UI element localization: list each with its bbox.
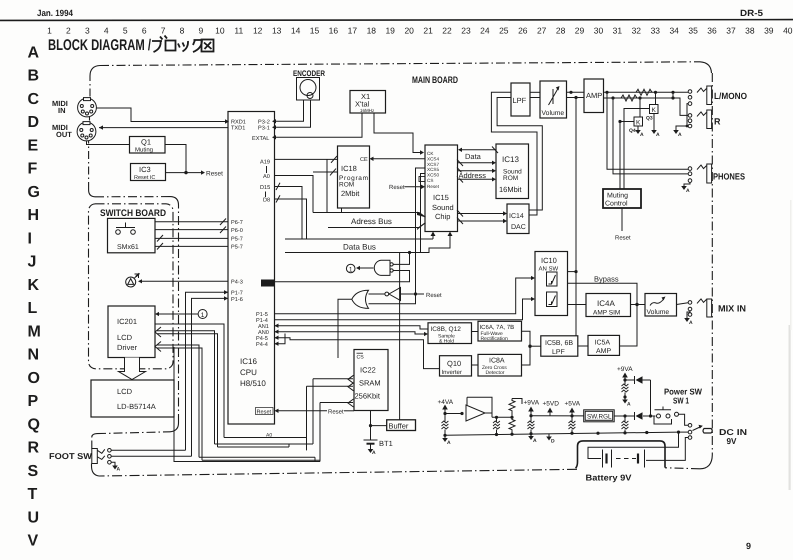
svg-text:G: G xyxy=(28,184,40,201)
svg-text:DAC: DAC xyxy=(511,224,526,231)
wire reset branch riser xyxy=(369,294,416,304)
ground A under +9VA upper xyxy=(624,397,626,400)
wire muting control reset xyxy=(621,208,623,231)
wire IC15 XCS5 riser (reset net) xyxy=(416,168,426,294)
svg-text:21: 21 xyxy=(423,26,433,36)
svg-text:16MHz: 16MHz xyxy=(360,108,375,113)
data bus channel xyxy=(285,238,433,240)
diode D? lower xyxy=(636,412,643,419)
pin bar D15-D8 xyxy=(265,192,267,198)
svg-text:Detector: Detector xyxy=(486,370,505,376)
wire CPU AN1 to IC8B xyxy=(275,326,429,329)
wire A-branch into IC18 xyxy=(313,171,338,173)
transistor Q4 xyxy=(639,98,641,117)
wire channel horizontal 5 xyxy=(202,459,320,461)
IC201 LCD driver box xyxy=(108,306,155,358)
svg-text:256Kbit: 256Kbit xyxy=(355,392,381,401)
wire IC15 to IC14 lower xyxy=(458,220,504,222)
capacitor at op-amp output xyxy=(496,417,498,434)
wire nand output to node1 xyxy=(360,267,374,269)
switch symbol inside SMx61 xyxy=(116,230,121,235)
svg-text:CS: CS xyxy=(427,178,433,183)
lpf IC5B box xyxy=(541,336,578,356)
reset IC3 box xyxy=(131,164,166,181)
svg-text:R: R xyxy=(28,440,40,457)
svg-text:A: A xyxy=(117,467,121,473)
wire dc jack lower to battery plus xyxy=(646,438,688,461)
wire P1-6 riser xyxy=(192,298,229,456)
svg-text:P3-2: P3-2 xyxy=(258,120,270,126)
main board boundary left edge midi section xyxy=(88,141,90,190)
wire nand input upper from data bus xyxy=(393,253,409,265)
svg-text:Adress Bus: Adress Bus xyxy=(351,217,392,226)
capacitor under +9VA xyxy=(530,416,532,434)
amp IC5A box xyxy=(588,335,620,355)
wire lpf to volume R xyxy=(530,97,540,99)
title katakana burokku-zu (drawn strokes) xyxy=(152,36,214,53)
svg-text:4: 4 xyxy=(104,26,109,36)
node 1 circle near IC201 xyxy=(198,310,207,319)
sram IC22 box xyxy=(354,350,388,411)
svg-text:24: 24 xyxy=(480,26,490,36)
main board boundary top-right corner xyxy=(700,62,712,73)
svg-text:IC8A: IC8A xyxy=(489,358,505,365)
svg-text:H: H xyxy=(28,207,40,224)
svg-text:1: 1 xyxy=(201,312,205,319)
wire CPU D8 to data bus xyxy=(275,199,307,239)
wire buffer drop xyxy=(399,253,401,420)
svg-text:SW 1: SW 1 xyxy=(673,396,689,406)
wire power switch to DC jack xyxy=(679,414,689,425)
IC10 switch element upper xyxy=(547,272,558,286)
main board boundary left edge below foot sw xyxy=(91,464,93,467)
muting control box xyxy=(603,189,641,208)
rom IC18 box xyxy=(338,146,370,208)
svg-text:38: 38 xyxy=(745,26,755,36)
wire CPU P1-4 to IC10 xyxy=(275,299,532,320)
wire channel to IC22 pin1 xyxy=(313,379,353,444)
svg-text:EXTAL: EXTAL xyxy=(252,136,269,142)
wire channel to IC22 pin2 xyxy=(307,386,354,450)
svg-text:Q4: Q4 xyxy=(629,128,636,134)
dc in jack xyxy=(688,424,712,440)
svg-text:+5VD: +5VD xyxy=(543,401,560,408)
ground mix in xyxy=(687,311,690,318)
wire +4VA node xyxy=(443,412,446,415)
svg-text:D8: D8 xyxy=(263,198,270,204)
wire data IC15 to IC13 xyxy=(458,162,493,164)
svg-text:25: 25 xyxy=(499,26,509,36)
zero cross detector IC8A box xyxy=(478,354,522,376)
svg-text:IC4A: IC4A xyxy=(597,299,615,308)
main board boundary corner to channel xyxy=(170,423,179,432)
wire battery minus loop xyxy=(588,432,679,458)
wire channel vertical x174 xyxy=(174,347,320,462)
svg-text:A: A xyxy=(627,402,631,408)
svg-text:Q3: Q3 xyxy=(646,116,653,122)
svg-text:Reset: Reset xyxy=(427,184,440,189)
encoder component xyxy=(297,78,320,101)
svg-text:XCS4: XCS4 xyxy=(427,157,439,162)
volume box (main) xyxy=(540,81,567,118)
wire IC22 to battery BT1 xyxy=(370,411,372,441)
MIDI IN connector J? xyxy=(78,98,97,117)
grid column numbers 1-40 xyxy=(47,26,793,36)
svg-text:XCS5: XCS5 xyxy=(427,167,439,172)
main board boundary left edge top section xyxy=(89,76,91,97)
sound rom IC13 box xyxy=(496,144,529,199)
svg-text:SMx61: SMx61 xyxy=(117,244,139,251)
svg-text:3: 3 xyxy=(85,26,90,36)
svg-text:Driver: Driver xyxy=(117,343,138,352)
wire CPU reset to reset net xyxy=(279,410,328,412)
wire IC4A to volume xyxy=(631,304,646,306)
supply +5VA arrow xyxy=(571,412,573,416)
svg-text:MAIN BOARD: MAIN BOARD xyxy=(412,75,458,86)
ground jack chain xyxy=(676,126,687,130)
svg-text:A0: A0 xyxy=(263,174,270,180)
svg-text:Reset: Reset xyxy=(615,235,631,242)
svg-text:Reset: Reset xyxy=(426,292,442,299)
svg-text:18: 18 xyxy=(367,26,377,36)
wire bypass line xyxy=(568,283,638,304)
svg-text:A: A xyxy=(533,438,537,444)
supply +4VA arrow xyxy=(444,409,446,414)
svg-text:M: M xyxy=(28,323,41,340)
pin RWR inverted tab xyxy=(262,280,274,286)
main board boundary left edge between midi connectors xyxy=(89,117,91,121)
bus IC201 data (lower) xyxy=(157,345,199,457)
svg-text:A: A xyxy=(656,132,660,138)
wire amp out L xyxy=(604,91,689,93)
pin tab on IC15 xyxy=(419,177,425,182)
svg-text:A: A xyxy=(678,132,682,138)
svg-text:RXD1: RXD1 xyxy=(231,120,246,126)
svg-text:40: 40 xyxy=(783,26,793,36)
wire CPU P4-5 east to Q10 xyxy=(275,338,440,369)
inverter Q10 box xyxy=(440,356,472,376)
supply +5VD arrow xyxy=(549,412,551,416)
main board boundary bottom-left corner xyxy=(92,466,100,476)
svg-text:IC5B, 6B: IC5B, 6B xyxy=(545,340,573,347)
svg-text:14: 14 xyxy=(291,26,301,36)
svg-text:5: 5 xyxy=(123,26,128,36)
resistor divider upper xyxy=(509,399,515,418)
supply +9VA arrow upper xyxy=(624,377,626,380)
svg-text:I: I xyxy=(28,230,32,247)
crystal X1 box xyxy=(350,91,386,114)
svg-text:J: J xyxy=(28,254,37,271)
wire MIDI IN to CPU RXD1 xyxy=(97,108,226,122)
wire node1 to IC201 xyxy=(159,313,198,315)
wire IC14 out R to LPF (inner loop) xyxy=(497,98,542,211)
svg-text:2Mbit: 2Mbit xyxy=(341,189,360,198)
main board boundary right edge xyxy=(711,73,713,455)
wire CPU A19 to IC18 xyxy=(275,158,338,160)
node 1 circle near nand xyxy=(346,264,355,273)
svg-text:P3-1: P3-1 xyxy=(258,126,270,132)
full wave rectification IC6A box xyxy=(478,321,522,341)
wire Q4 base to muting control xyxy=(620,122,634,190)
svg-text:V: V xyxy=(28,533,39,550)
svg-text:A: A xyxy=(686,188,690,194)
diode D? upper xyxy=(636,376,643,383)
svg-text:28: 28 xyxy=(556,26,566,36)
svg-text:H8/510: H8/510 xyxy=(240,379,266,388)
wire channel horizontal 3 xyxy=(218,444,290,447)
svg-text:AMP SIM: AMP SIM xyxy=(593,310,620,317)
svg-text:Muting: Muting xyxy=(135,147,153,154)
volume box (mix in) xyxy=(645,294,677,317)
svg-text:SRAM: SRAM xyxy=(359,379,381,388)
MIDI OUT connector xyxy=(77,122,96,141)
svg-text:36: 36 xyxy=(707,26,717,36)
svg-text:+4VA: +4VA xyxy=(438,399,454,406)
svg-text:11: 11 xyxy=(234,26,243,36)
svg-text:16: 16 xyxy=(329,26,339,36)
svg-text:Volume: Volume xyxy=(647,309,670,316)
svg-text:AMP: AMP xyxy=(586,91,602,100)
wire Q3 base to muting control xyxy=(624,109,650,190)
analog switch IC10 box xyxy=(535,252,568,316)
main board boundary bottom edge left of battery xyxy=(99,469,577,476)
wire or gate output to IC22 CS riser xyxy=(338,299,352,358)
resistor R-R xyxy=(621,95,637,101)
svg-text:A: A xyxy=(28,44,40,61)
wire IC3 to Reset net xyxy=(166,172,202,174)
svg-text:D15: D15 xyxy=(260,185,270,191)
svg-text:IC18: IC18 xyxy=(341,164,357,173)
wire divider top to +9VA xyxy=(512,399,522,405)
wire IC15 XCS0 riser xyxy=(421,174,426,253)
svg-text:Sound: Sound xyxy=(432,203,454,212)
svg-text:Q1: Q1 xyxy=(141,138,151,147)
svg-text:IN: IN xyxy=(58,106,66,115)
svg-text:R: R xyxy=(714,117,721,127)
resistor R-L xyxy=(636,89,652,95)
wire IC5A up to mix node xyxy=(620,305,638,347)
svg-text:22: 22 xyxy=(442,26,452,36)
svg-text:32: 32 xyxy=(632,26,642,36)
svg-text:Q10: Q10 xyxy=(447,359,461,368)
wire IC15 to IC14 upper xyxy=(458,213,504,215)
wire IC15 XCS4 to IC18 CE xyxy=(374,158,426,160)
svg-text:BLOCK DIAGRAM /: BLOCK DIAGRAM / xyxy=(48,37,151,54)
battery 9V symbol xyxy=(603,450,645,468)
wire nand input lower from CPU RWR xyxy=(275,271,410,282)
svg-text:RWR: RWR xyxy=(263,281,275,287)
svg-text:E: E xyxy=(28,137,39,154)
wire lpf to volume L xyxy=(530,91,540,93)
svg-text:15: 15 xyxy=(310,26,320,36)
svg-text:IC5A: IC5A xyxy=(595,340,611,347)
svg-text:35: 35 xyxy=(688,26,698,36)
wire CPU P5-7 to SMx61 xyxy=(155,237,228,239)
wire inverter input from Reset net xyxy=(401,293,425,295)
wire X1 to IC15 CK xyxy=(374,113,420,153)
svg-text:AN SW: AN SW xyxy=(539,266,559,273)
supply +9VA arrow xyxy=(530,411,532,416)
svg-text:IC13: IC13 xyxy=(502,155,519,164)
svg-text:P5-7: P5-7 xyxy=(231,237,243,243)
svg-text:P6-7: P6-7 xyxy=(231,220,243,226)
svg-text:LCD: LCD xyxy=(117,387,133,396)
svg-text:Data Bus: Data Bus xyxy=(343,243,376,252)
regulator SW.RGL box xyxy=(584,410,615,422)
wire encoder to CPU P3-2 xyxy=(276,100,304,121)
battery BT1 xyxy=(364,439,378,441)
wire CPU A0 to bus riser xyxy=(275,176,314,213)
svg-text:13: 13 xyxy=(272,26,282,36)
svg-text:C: C xyxy=(28,91,40,108)
svg-text:9: 9 xyxy=(746,541,751,551)
svg-text:29: 29 xyxy=(575,26,585,36)
main board boundary bottom-right corner xyxy=(700,455,712,469)
buffer box xyxy=(387,420,416,431)
svg-text:B: B xyxy=(28,68,40,85)
svg-text:Q: Q xyxy=(28,416,40,433)
svg-text:+9VA: +9VA xyxy=(617,366,633,373)
battery compartment outline xyxy=(576,441,665,468)
svg-text:D: D xyxy=(28,114,40,131)
wire SMx61 to CPU P6-7 xyxy=(155,221,228,223)
svg-text:9: 9 xyxy=(199,26,204,36)
svg-text:A: A xyxy=(447,440,451,446)
svg-text:A: A xyxy=(689,320,693,326)
wire MIDI OUT to Q1 xyxy=(87,141,130,145)
wire bypass drop from amp input xyxy=(575,98,577,336)
svg-text:PHONES: PHONES xyxy=(713,172,745,182)
wire CPU D15 to data bus xyxy=(275,187,303,240)
wire diode node riser xyxy=(650,380,652,416)
svg-text:ROM: ROM xyxy=(339,182,354,189)
svg-text:XCS0: XCS0 xyxy=(427,172,439,177)
wire IC18 to address bus xyxy=(341,208,343,213)
svg-text:23: 23 xyxy=(461,26,471,36)
wire encoder to CPU P3-1 xyxy=(276,100,311,127)
capacitor under +4VA xyxy=(444,414,446,436)
svg-text:12: 12 xyxy=(253,26,263,36)
node Address label xyxy=(458,172,491,178)
svg-text:DR-5: DR-5 xyxy=(740,8,763,18)
ground D stub xyxy=(548,434,550,437)
ground A under +9VA xyxy=(530,434,532,436)
svg-text:Bypass: Bypass xyxy=(594,275,619,284)
amp box xyxy=(584,79,604,113)
wire channel horizontal 1 xyxy=(224,438,307,451)
svg-text:S: S xyxy=(28,463,39,480)
wire channel horizontal 2 xyxy=(215,443,314,445)
svg-text:P4-3: P4-3 xyxy=(231,280,243,286)
ground under +4VA xyxy=(444,435,446,438)
op-amp U? buffer xyxy=(466,405,485,421)
svg-text:19: 19 xyxy=(385,26,395,36)
svg-text:Reset: Reset xyxy=(389,184,405,191)
jack MIX IN xyxy=(688,299,711,317)
main board boundary inner top edge (above switch board) xyxy=(95,196,170,198)
resistor divider lower xyxy=(509,417,515,434)
wire 5V rail to regulator xyxy=(531,415,584,417)
wire mono link between jacks xyxy=(687,104,688,126)
main board boundary bottom edge right of battery xyxy=(665,468,700,469)
svg-text:P: P xyxy=(28,393,39,410)
capacitor under switch node xyxy=(624,416,626,433)
wire volume to amp R xyxy=(567,97,585,99)
wire IC10 lower to IC4A xyxy=(568,304,587,306)
wire P1-7 riser xyxy=(186,292,229,450)
bus IC201 data (upper) xyxy=(157,331,215,444)
svg-text:P4-4: P4-4 xyxy=(256,342,268,348)
svg-text:IC15: IC15 xyxy=(433,193,449,202)
svg-text:30: 30 xyxy=(594,26,604,36)
svg-text:33: 33 xyxy=(651,26,661,36)
svg-text:D: D xyxy=(551,439,555,445)
main board boundary inner bottom edge (LCD channel) xyxy=(97,432,170,434)
jack PHONES xyxy=(688,164,711,183)
inverter gate (mirrored) xyxy=(389,288,401,301)
svg-text:Volume: Volume xyxy=(542,110,565,117)
lpf box xyxy=(511,83,530,116)
svg-text:31: 31 xyxy=(613,26,623,36)
main board boundary channel vertical xyxy=(178,205,180,423)
svg-text:U: U xyxy=(28,509,40,526)
svg-text:CK: CK xyxy=(427,151,434,156)
wire data IC13 to IC15 xyxy=(462,149,496,151)
svg-text:MIX IN: MIX IN xyxy=(718,304,746,314)
LCD connection hollow arrow xyxy=(119,358,146,380)
svg-text:K: K xyxy=(652,107,657,114)
grid row letters A-V xyxy=(28,44,41,549)
svg-text:39: 39 xyxy=(764,26,774,36)
svg-text:9V: 9V xyxy=(727,436,737,446)
svg-text:SWITCH BOARD: SWITCH BOARD xyxy=(100,208,166,219)
svg-text:Jan. 1994: Jan. 1994 xyxy=(37,8,73,18)
nand gate (mirrored) xyxy=(374,260,390,275)
svg-text:Address: Address xyxy=(459,171,487,180)
svg-text:TXD1: TXD1 xyxy=(231,126,245,132)
svg-text:CE: CE xyxy=(360,157,368,163)
wire IC10 right to bypass stub xyxy=(568,271,577,273)
svg-text:IC3: IC3 xyxy=(139,165,151,174)
svg-text:IC6A, 7A, 7B: IC6A, 7A, 7B xyxy=(480,324,515,331)
wire inverter output to or gate xyxy=(369,293,386,295)
svg-text:P5-7: P5-7 xyxy=(231,245,243,251)
svg-text:FOOT SW: FOOT SW xyxy=(49,451,93,461)
trigger pad symbol (circled) xyxy=(126,273,140,287)
svg-text:Chip: Chip xyxy=(435,212,450,221)
svg-text:LPF: LPF xyxy=(513,96,527,105)
svg-text:AMP: AMP xyxy=(596,348,612,355)
wire phones feed R xyxy=(613,98,688,174)
main board boundary left edge above foot sw xyxy=(91,437,93,449)
svg-text:OUT: OUT xyxy=(56,130,72,139)
sample hold IC8B box xyxy=(428,323,472,344)
svg-text:7: 7 xyxy=(161,26,166,36)
wire SMx61 to CPU P6-0 xyxy=(155,229,228,231)
svg-text:Battery 9V: Battery 9V xyxy=(586,473,632,483)
address bus channel xyxy=(313,212,419,214)
svg-text:Reset: Reset xyxy=(206,171,223,178)
svg-text:Inverter: Inverter xyxy=(442,369,462,376)
wire X1 to CPU EXTAL xyxy=(276,113,362,137)
transistor Q1 muting box xyxy=(130,137,166,154)
svg-text:K: K xyxy=(636,120,641,127)
wire node to IC5B xyxy=(530,345,541,347)
wire L to R link xyxy=(672,92,674,98)
wire address IC15 to IC13 upper xyxy=(458,170,493,172)
svg-text:Muting: Muting xyxy=(607,192,628,200)
svg-text:A: A xyxy=(372,450,376,456)
